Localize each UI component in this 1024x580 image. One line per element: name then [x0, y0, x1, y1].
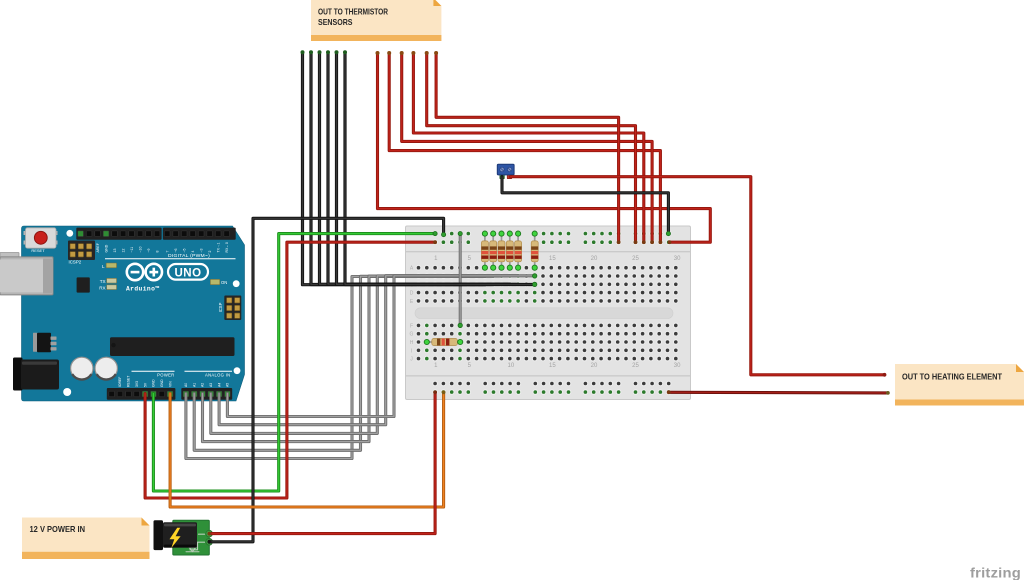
wire A5 gray — [227, 276, 534, 417]
svg-text:3V3: 3V3 — [135, 381, 139, 387]
svg-text:12 V POWER IN: 12 V POWER IN — [30, 525, 86, 534]
wire A0 gray — [186, 277, 485, 459]
svg-text:G: G — [410, 332, 414, 338]
wire thermistor red S6 — [436, 53, 618, 242]
svg-text:25: 25 — [632, 256, 639, 262]
wire red 5V to top rail — [145, 242, 435, 498]
ICSP2 header — [68, 241, 95, 261]
note: 12 V POWER IN — [22, 518, 150, 560]
svg-text:SENSORS: SENSORS — [318, 18, 353, 27]
svg-text:AREF: AREF — [96, 243, 100, 252]
svg-text:15: 15 — [549, 256, 556, 262]
svg-text:A3: A3 — [209, 383, 213, 387]
svg-text:RX←0: RX←0 — [225, 242, 229, 252]
svg-text:~10: ~10 — [138, 247, 142, 253]
svg-text:10: 10 — [508, 363, 515, 369]
voltage regulator — [33, 333, 38, 352]
Arduino UNO board U1 — [0, 226, 245, 401]
svg-text:DIGITAL (PWM~): DIGITAL (PWM~) — [168, 253, 210, 258]
wire thermistor black T1 — [303, 53, 485, 285]
POWER header — [107, 388, 176, 400]
12V power jack module — [154, 520, 213, 555]
svg-text:OUT TO HEATING ELEMENT: OUT TO HEATING ELEMENT — [902, 372, 1002, 381]
wire red terminal to heating element — [511, 177, 885, 375]
svg-text:~9: ~9 — [147, 248, 151, 252]
wire thermistor black T5 — [337, 53, 519, 285]
note: OUT TO HEATING ELEMENT — [895, 364, 1024, 406]
chip U3 — [77, 277, 90, 292]
svg-text:A2: A2 — [201, 383, 205, 387]
svg-text:Arduino™: Arduino™ — [126, 286, 159, 293]
svg-text:ICSP: ICSP — [218, 302, 223, 312]
svg-text:L: L — [102, 264, 105, 269]
wire orange VIN to bottom rail — [170, 392, 444, 507]
svg-text:~6: ~6 — [174, 248, 178, 252]
wire thermistor red S3 — [402, 53, 652, 242]
resistor R2 — [490, 231, 497, 270]
LED ON — [210, 279, 220, 284]
wire thermistor red S4 — [413, 53, 643, 242]
reset button SW1 — [24, 231, 27, 235]
wire red bottom rail to jack — [209, 392, 435, 533]
resistor R1 — [481, 231, 488, 270]
ICSP header — [224, 296, 241, 321]
svg-text:~3: ~3 — [199, 248, 203, 252]
resistor R7 (horizontal, lower section) — [424, 339, 463, 346]
svg-text:RX: RX — [99, 286, 105, 291]
Arduino logo — [127, 264, 143, 280]
note: OUT TO THERMISTOR SENSORS — [311, 0, 441, 41]
svg-text:30: 30 — [674, 256, 681, 262]
svg-text:8: 8 — [155, 251, 159, 253]
DC power jack on Arduino — [13, 358, 23, 391]
wire A2 gray — [203, 276, 502, 442]
svg-text:ICSP2: ICSP2 — [69, 260, 82, 265]
svg-text:TX→1: TX→1 — [216, 243, 220, 253]
wire thermistor black T2 — [311, 53, 493, 285]
wire thermistor black T4 — [328, 53, 510, 285]
USB connector J1 — [0, 253, 19, 259]
svg-text:IOREF: IOREF — [118, 377, 122, 387]
resistor R6 — [531, 231, 538, 270]
wire thermistor red S2 — [389, 53, 660, 242]
svg-text:UNO: UNO — [174, 267, 201, 279]
svg-text:GND: GND — [160, 379, 164, 387]
wire gray rail-to-F5 — [459, 234, 462, 326]
wire A4 gray — [219, 276, 518, 425]
svg-text:15: 15 — [549, 363, 556, 369]
UNO badge — [168, 264, 208, 280]
wire thermistor red S5 — [427, 53, 636, 242]
capacitor C2 — [95, 357, 117, 379]
svg-text:POWER: POWER — [157, 372, 174, 377]
wire thermistor black T6 — [345, 53, 535, 285]
svg-text:ON: ON — [221, 280, 227, 285]
svg-text:GND: GND — [152, 379, 156, 387]
svg-text:OUT TO THERMISTOR: OUT TO THERMISTOR — [318, 7, 388, 16]
svg-text:A4: A4 — [217, 383, 221, 387]
wire black terminal to top rail — [502, 177, 668, 234]
wire thermistor black T3 — [320, 53, 502, 285]
svg-text:VIN: VIN — [168, 381, 172, 387]
breadboard — [406, 226, 691, 400]
screw terminal J2 — [497, 164, 514, 178]
wire green GND to top rail — [153, 234, 435, 491]
ANALOG IN header — [181, 388, 232, 400]
resistor R4 — [506, 231, 513, 270]
wire A3 gray — [211, 276, 510, 434]
svg-text:fritzing: fritzing — [970, 566, 1021, 580]
svg-text:H: H — [410, 340, 414, 346]
svg-text:20: 20 — [591, 256, 598, 262]
resistor R3 — [498, 231, 505, 270]
svg-text:D: D — [410, 291, 414, 297]
svg-text:F: F — [410, 323, 413, 329]
svg-text:~5: ~5 — [182, 248, 186, 252]
svg-text:RESET: RESET — [127, 376, 131, 387]
svg-text:A5: A5 — [226, 383, 230, 387]
svg-text:30: 30 — [674, 363, 681, 369]
wire dark red bottom rail to heating element — [669, 391, 888, 395]
svg-text:I: I — [411, 348, 412, 354]
svg-text:ANALOG IN: ANALOG IN — [205, 372, 231, 377]
svg-text:TX: TX — [100, 279, 106, 284]
svg-text:5V: 5V — [143, 382, 147, 387]
svg-text:13: 13 — [113, 249, 117, 253]
svg-text:20: 20 — [591, 363, 598, 369]
wire thermistor red S1 (U-turn) — [378, 53, 711, 242]
ATmega328 chip U2 — [110, 337, 235, 356]
wire black jack to top rail — [209, 218, 443, 542]
svg-text:A1: A1 — [192, 383, 196, 387]
digital pin headers — [76, 228, 161, 240]
svg-text:A0: A0 — [184, 383, 188, 387]
wire A1 gray — [194, 276, 493, 450]
svg-text:~11: ~11 — [130, 247, 134, 253]
svg-text:GND: GND — [104, 244, 108, 252]
mounting holes — [66, 230, 73, 237]
resistor R5 — [515, 231, 522, 270]
svg-text:25: 25 — [632, 363, 639, 369]
svg-text:RESET: RESET — [31, 248, 45, 253]
capacitor C1 — [71, 357, 93, 379]
svg-text:12: 12 — [121, 249, 125, 253]
